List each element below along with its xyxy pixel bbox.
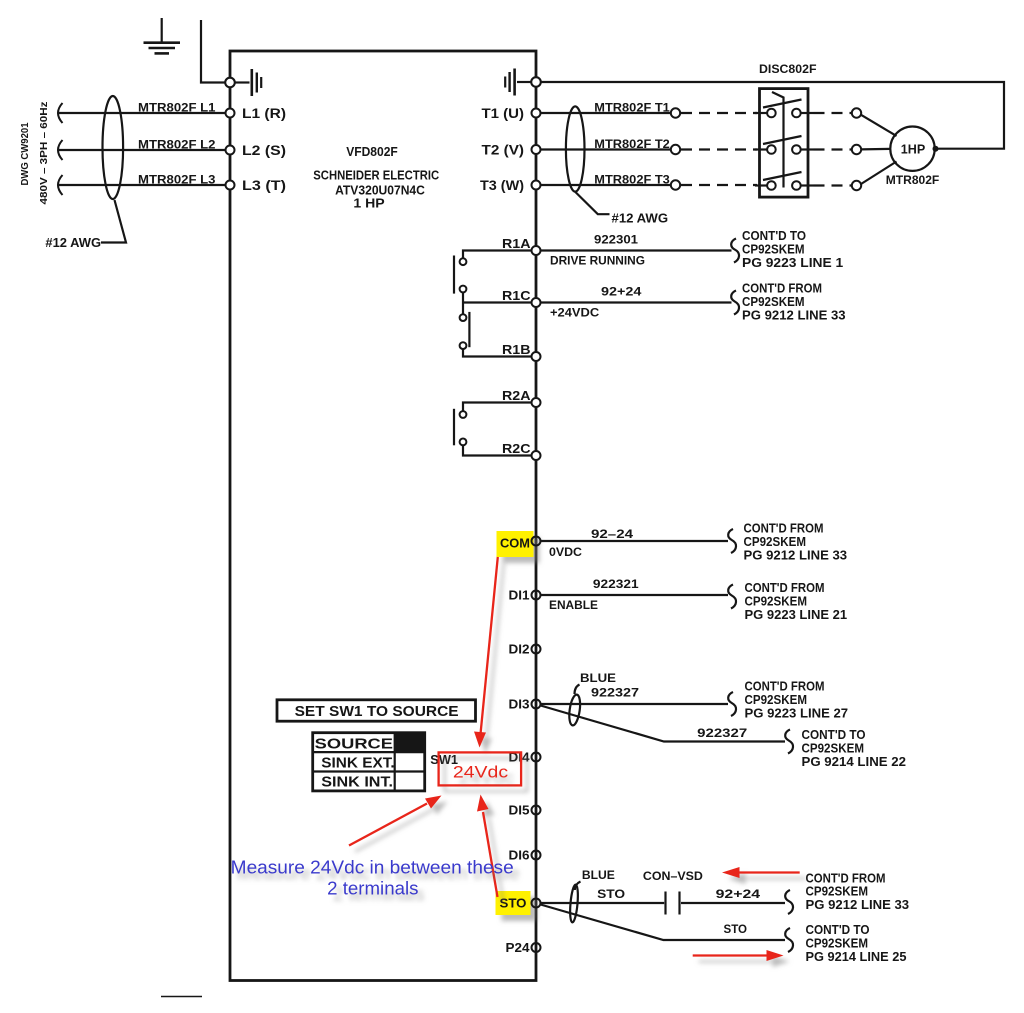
- terminal L2: [226, 146, 235, 155]
- svg-text:STO: STO: [500, 896, 527, 911]
- svg-text:2 terminals: 2 terminals: [327, 879, 418, 899]
- wire T3 dashed: [681, 184, 757, 186]
- VFD enclosure box U1: [230, 51, 536, 981]
- wire T2 dashed: [681, 148, 757, 150]
- wire L2: [58, 140, 226, 160]
- wire L1: [58, 103, 226, 123]
- svg-text:L1 (R): L1 (R): [242, 106, 286, 121]
- terminal T2: [532, 145, 541, 154]
- wire R1C output: [541, 301, 732, 303]
- wire R1C: [462, 292, 464, 314]
- svg-text:SINK EXT.: SINK EXT.: [321, 755, 394, 771]
- svg-text:T2 (V): T2 (V): [482, 143, 525, 158]
- svg-text:PG 9214 LINE 25: PG 9214 LINE 25: [806, 950, 907, 964]
- terminal R2C: [532, 451, 541, 460]
- svg-text:MTR802F L3: MTR802F L3: [138, 173, 216, 187]
- switch table SW1: [313, 733, 425, 791]
- terminal STO: [532, 899, 541, 908]
- wire R1B: [463, 349, 532, 357]
- wire R1A: [463, 251, 532, 259]
- cable ellipse STO: [569, 884, 579, 922]
- chassis ground left: [235, 69, 262, 96]
- svg-text:PG 9212 LINE 33: PG 9212 LINE 33: [806, 898, 910, 912]
- svg-text:T1 (U): T1 (U): [482, 106, 525, 121]
- svg-text:SOURCE: SOURCE: [315, 736, 394, 752]
- annotation red arrow right PG9214: [693, 950, 784, 961]
- svg-text:PG 9223 LINE 1: PG 9223 LINE 1: [742, 256, 843, 270]
- svg-text:CP92SKEM: CP92SKEM: [745, 594, 808, 608]
- contact K2 (R1C-R1B): [460, 312, 470, 349]
- leader BLUE DI3: [575, 685, 580, 695]
- wire T2: [541, 148, 671, 150]
- svg-text:PG 9214 LINE 22: PG 9214 LINE 22: [802, 755, 907, 769]
- svg-text:1 HP: 1 HP: [353, 197, 384, 211]
- svg-text:CONT'D TO: CONT'D TO: [806, 923, 870, 937]
- terminal R1B: [532, 352, 541, 361]
- annotation red arrow left CON-VSD: [722, 867, 800, 878]
- svg-text:CP92SKEM: CP92SKEM: [742, 242, 805, 256]
- svg-text:CP92SKEM: CP92SKEM: [802, 741, 865, 755]
- wire T3 dashed right: [814, 184, 852, 186]
- terminal DI5: [532, 806, 541, 815]
- svg-text:MTR802F L1: MTR802F L1: [138, 101, 216, 115]
- svg-text:ATV320U07N4C: ATV320U07N4C: [335, 183, 425, 197]
- continuation STO branch: [785, 923, 906, 964]
- continuation DI1: [728, 581, 847, 622]
- terminal DI4: [532, 753, 541, 762]
- node T3 splice: [671, 180, 680, 189]
- wire T1: [541, 112, 671, 114]
- wire STO branch: [541, 905, 786, 941]
- disconnect pole 3: [755, 172, 814, 190]
- svg-text:R1B: R1B: [502, 342, 531, 357]
- label SET SW1 TO SOURCE box: [277, 700, 476, 721]
- svg-text:CP92SKEM: CP92SKEM: [744, 535, 807, 549]
- svg-text:#12 AWG: #12 AWG: [45, 236, 101, 250]
- svg-text:CP92SKEM: CP92SKEM: [742, 295, 805, 309]
- svg-text:#12 AWG: #12 AWG: [612, 212, 669, 226]
- annotation red arrow COM to 24Vdc box: [474, 557, 498, 748]
- stray mark bottom left: [161, 996, 202, 998]
- terminal T1: [532, 109, 541, 118]
- svg-text:MTR802F T2: MTR802F T2: [594, 137, 670, 151]
- contact CON-VSD: [666, 892, 680, 915]
- svg-text:24Vdc: 24Vdc: [453, 763, 509, 782]
- wire R1A output: [541, 249, 732, 251]
- terminal R1A: [532, 246, 541, 255]
- svg-text:PG 9223 LINE 27: PG 9223 LINE 27: [745, 706, 849, 720]
- continuation STO: [785, 871, 909, 914]
- wire T2 dashed right: [814, 148, 852, 150]
- svg-text:L2 (S): L2 (S): [242, 143, 286, 158]
- svg-text:92+24: 92+24: [601, 285, 642, 299]
- terminal L3: [226, 181, 235, 190]
- svg-text:CONT'D FROM: CONT'D FROM: [745, 680, 825, 694]
- annotation red box 24Vdc: [439, 752, 521, 785]
- wire T1 dashed right: [814, 112, 852, 114]
- wire motor lead 3: [861, 162, 897, 185]
- svg-text:DI3: DI3: [509, 697, 530, 712]
- svg-text:DISC802F: DISC802F: [759, 62, 817, 76]
- node motor lead 3: [852, 181, 861, 190]
- svg-text:922327: 922327: [591, 686, 639, 700]
- cable ellipse DI3: [568, 694, 582, 726]
- contact K3 (R2A-R2C): [454, 409, 466, 446]
- disconnect switch DISC802F: [760, 89, 809, 198]
- svg-text:92+24: 92+24: [716, 887, 761, 901]
- svg-text:R1C: R1C: [502, 288, 531, 303]
- svg-text:SET SW1 TO SOURCE: SET SW1 TO SOURCE: [295, 704, 459, 720]
- svg-text:PG 9223 LINE 21: PG 9223 LINE 21: [745, 608, 848, 622]
- svg-text:MTR802F L2: MTR802F L2: [138, 138, 216, 152]
- node ground junction right: [531, 77, 541, 87]
- svg-text:MTR802F T1: MTR802F T1: [594, 101, 670, 115]
- wire ground feed: [201, 20, 226, 83]
- wire DI1: [541, 594, 729, 596]
- svg-text:R2A: R2A: [502, 388, 531, 403]
- svg-text:P24: P24: [506, 940, 531, 955]
- continuation R1A: [731, 229, 843, 270]
- svg-text:STO: STO: [724, 922, 748, 936]
- wire R2A: [463, 403, 532, 412]
- terminal COM highlight: [497, 531, 534, 557]
- wire DI3 branch: [541, 706, 786, 742]
- terminal COM: [532, 537, 541, 546]
- svg-text:PG 9212 LINE 33: PG 9212 LINE 33: [742, 308, 846, 322]
- svg-text:PG 9212 LINE 33: PG 9212 LINE 33: [744, 548, 848, 562]
- svg-text:CONT'D TO: CONT'D TO: [802, 728, 866, 742]
- svg-text:CP92SKEM: CP92SKEM: [745, 693, 808, 707]
- wire motor lead 1: [861, 115, 897, 136]
- wire motor lead 2: [861, 148, 890, 151]
- node T1 splice: [671, 108, 680, 117]
- node T2 splice: [671, 145, 680, 154]
- svg-text:VFD802F: VFD802F: [346, 145, 398, 159]
- continuation COM: [728, 522, 847, 563]
- continuation DI3 branch: [785, 728, 906, 769]
- contact K1 (R1A-R1C): [454, 256, 466, 294]
- node motor lead 2: [852, 145, 861, 154]
- terminal T3: [532, 181, 541, 190]
- svg-text:CP92SKEM: CP92SKEM: [806, 936, 869, 950]
- svg-text:922327: 922327: [697, 726, 747, 740]
- svg-text:MTR802F T3: MTR802F T3: [594, 173, 670, 187]
- svg-text:STO: STO: [597, 887, 625, 901]
- svg-text:R1A: R1A: [502, 236, 531, 251]
- svg-text:T3 (W): T3 (W): [480, 178, 524, 193]
- node ground junction left: [225, 78, 235, 88]
- wire L3: [58, 175, 226, 195]
- svg-text:MTR802F: MTR802F: [886, 173, 940, 187]
- svg-text:SINK INT.: SINK INT.: [321, 774, 393, 790]
- leader #12 AWG input: [101, 200, 126, 243]
- svg-text:0VDC: 0VDC: [549, 545, 582, 559]
- chassis ground right: [505, 69, 531, 96]
- svg-text:92–24: 92–24: [591, 527, 633, 541]
- terminal R1C: [532, 298, 541, 307]
- svg-text:L3 (T): L3 (T): [242, 178, 286, 193]
- node motor junction: [933, 146, 939, 152]
- top bus wire to motor: [540, 82, 1004, 149]
- svg-text:CONT'D FROM: CONT'D FROM: [806, 871, 886, 885]
- terminal DI1: [532, 591, 541, 600]
- svg-text:DI5: DI5: [509, 803, 530, 818]
- svg-text:+24VDC: +24VDC: [550, 306, 600, 320]
- disconnect pole 2: [755, 136, 814, 154]
- disconnect linkage: [772, 92, 784, 188]
- svg-text:R2C: R2C: [502, 441, 531, 456]
- annotation red arrow STO to 24Vdc box: [477, 795, 498, 898]
- svg-text:480V – 3PH – 60Hz: 480V – 3PH – 60Hz: [38, 102, 50, 205]
- svg-text:Measure 24Vdc in between these: Measure 24Vdc in between these: [231, 858, 514, 878]
- wire R2C: [463, 445, 532, 455]
- terminal DI3: [532, 700, 541, 709]
- terminal R2A: [532, 398, 541, 407]
- terminal P24: [532, 943, 541, 952]
- svg-text:DI1: DI1: [509, 588, 530, 603]
- disconnect pole 1: [755, 100, 814, 118]
- annotation red arrow measure to SW1: [349, 796, 442, 846]
- wire COM: [541, 540, 729, 542]
- cable shield ellipse output: [566, 106, 585, 191]
- svg-text:CONT'D FROM: CONT'D FROM: [742, 282, 822, 296]
- svg-text:BLUE: BLUE: [580, 671, 616, 685]
- svg-text:CONT'D FROM: CONT'D FROM: [745, 581, 825, 595]
- cable shield ellipse input: [103, 96, 124, 199]
- svg-text:922301: 922301: [594, 233, 638, 247]
- svg-text:CON–VSD: CON–VSD: [643, 869, 703, 883]
- earth ground symbol: [144, 18, 181, 53]
- leader #12 AWG output: [575, 192, 610, 215]
- motor MTR802F: [890, 127, 934, 171]
- svg-text:SCHNEIDER ELECTRIC: SCHNEIDER ELECTRIC: [313, 168, 439, 182]
- svg-text:1HP: 1HP: [901, 143, 925, 157]
- svg-text:ENABLE: ENABLE: [549, 598, 598, 612]
- wire DI3: [541, 703, 729, 705]
- svg-text:DWG CW9201: DWG CW9201: [19, 122, 31, 185]
- terminal DI2: [532, 645, 541, 654]
- svg-text:922321: 922321: [593, 577, 639, 591]
- continuation DI3: [728, 680, 848, 721]
- terminal STO highlight: [496, 891, 531, 915]
- svg-text:DRIVE RUNNING: DRIVE RUNNING: [550, 254, 645, 268]
- node motor lead 1: [852, 108, 861, 117]
- terminal DI6: [532, 851, 541, 860]
- terminal L1: [226, 109, 235, 118]
- svg-text:BLUE: BLUE: [582, 868, 615, 882]
- svg-text:COM: COM: [500, 536, 530, 551]
- continuation R1C: [731, 282, 845, 323]
- wire STO right: [681, 902, 785, 904]
- svg-text:DI2: DI2: [509, 642, 530, 657]
- wire T3: [541, 184, 671, 186]
- svg-text:CP92SKEM: CP92SKEM: [806, 885, 869, 899]
- wire STO: [541, 902, 665, 904]
- leader BLUE STO: [575, 882, 581, 891]
- wire T1 dashed: [681, 112, 757, 114]
- svg-text:CONT'D TO: CONT'D TO: [742, 229, 806, 243]
- svg-text:CONT'D FROM: CONT'D FROM: [744, 522, 824, 536]
